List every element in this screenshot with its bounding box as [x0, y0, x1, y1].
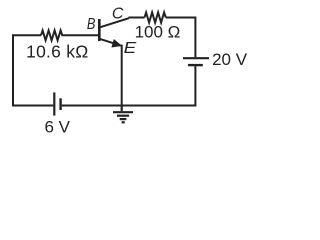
svg-text:C: C: [112, 6, 124, 23]
svg-text:100 Ω: 100 Ω: [135, 23, 181, 42]
ground bar 3: [120, 118, 127, 120]
resistor R2 100 Ω zigzag: [145, 12, 166, 22]
battery B1 6V long plate: [53, 92, 55, 115]
svg-text:E: E: [124, 39, 137, 57]
svg-text:20 V: 20 V: [212, 50, 248, 69]
svg-text:B: B: [87, 16, 96, 34]
wire: collector horizontal segment: [129, 17, 145, 19]
wire: right upper + top to resistor R2: [166, 18, 196, 58]
transistor Q1 emitter arrowhead: [112, 40, 121, 47]
wire: emitter vertical: [121, 45, 123, 106]
transistor Q1 base bar: [98, 19, 101, 41]
ground bar 4: [122, 121, 125, 123]
transistor Q1 collector lead: [100, 18, 129, 27]
resistor R1 10.6 kΩ zigzag: [41, 30, 98, 40]
battery B2 20V long plate: [183, 57, 209, 59]
ground bar 1: [113, 111, 133, 113]
ground stem: [121, 106, 123, 112]
ground bar 2: [117, 115, 129, 117]
svg-text:10.6 kΩ: 10.6 kΩ: [26, 42, 88, 62]
transistor Q1 emitter lead: [100, 39, 121, 46]
svg-text:6 V: 6 V: [45, 118, 71, 137]
wire: bottom right segment up to 20V battery: [62, 66, 196, 105]
wire: left loop (top-left, left side, bottom to 6V battery): [13, 35, 53, 105]
battery B2 20V short plate: [188, 64, 203, 66]
battery B1 6V short plate: [59, 98, 61, 110]
